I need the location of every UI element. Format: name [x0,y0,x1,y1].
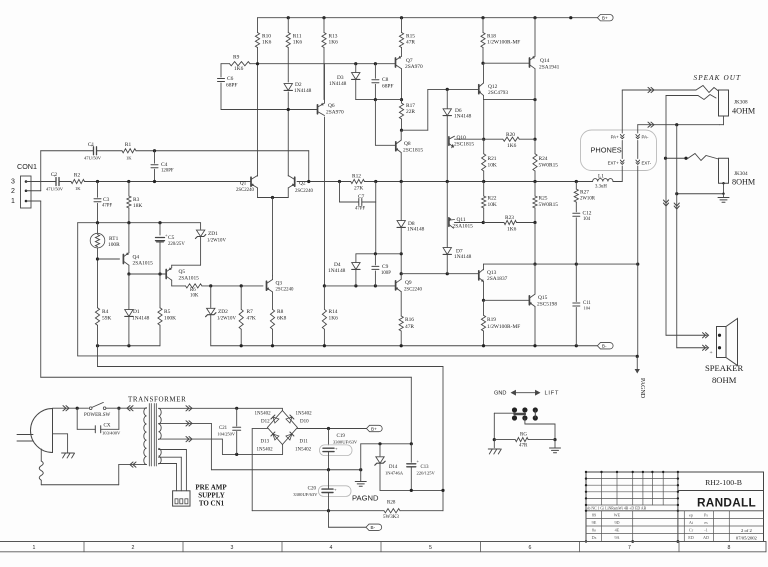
svg-text:C12: C12 [583,211,592,217]
svg-text:POWER.SW: POWER.SW [84,413,111,418]
svg-text:47K: 47K [247,316,256,322]
svg-text:R21: R21 [488,156,497,162]
svg-text:68PF: 68PF [382,84,393,90]
svg-text:EXT+: EXT+ [608,161,620,166]
svg-text:Q14: Q14 [540,58,550,64]
svg-text:B+: B+ [371,426,377,431]
svg-text:2SC2240: 2SC2240 [404,288,422,293]
svg-text:2SC5198: 2SC5198 [537,302,557,308]
svg-text:1K: 1K [126,156,132,161]
svg-text:10K: 10K [488,163,497,169]
svg-text:+: + [334,487,337,492]
svg-text:1N4148: 1N4148 [328,268,346,274]
svg-text:R28: R28 [387,501,396,506]
svg-text:2SA1837: 2SA1837 [487,276,508,282]
svg-text:3: 3 [231,545,234,551]
svg-text:2SA970: 2SA970 [405,64,423,70]
svg-text:104: 104 [584,306,591,311]
svg-text:8: 8 [728,545,731,551]
svg-text:1K: 1K [75,186,81,191]
svg-text:C8: C8 [382,77,389,83]
svg-text:3.3uH: 3.3uH [595,185,607,190]
svg-text:Q11: Q11 [457,217,466,223]
svg-text:AD: AD [703,535,709,540]
svg-text:R6: R6 [190,288,196,293]
svg-text:9A: 9A [614,535,619,540]
svg-text:4: 4 [330,545,333,551]
svg-text:+: + [335,446,338,451]
svg-text:Q9: Q9 [405,280,412,286]
svg-text:1/2W100R-MF: 1/2W100R-MF [487,40,520,46]
svg-text:89: 89 [592,512,596,517]
svg-text:1: 1 [11,198,15,205]
svg-text:JK304: JK304 [734,171,748,177]
svg-text:R23: R23 [505,215,514,221]
svg-text:2: 2 [11,188,15,195]
svg-text:18K: 18K [133,203,142,209]
svg-text:120PF: 120PF [161,169,174,174]
svg-text:47R: 47R [405,324,414,330]
svg-text:C21: C21 [219,426,228,431]
svg-text:220/125V: 220/125V [417,471,436,476]
svg-text:C4: C4 [161,162,168,168]
svg-text:C7: C7 [358,194,365,200]
svg-text:47R: 47R [519,444,528,449]
svg-text:47PF: 47PF [355,207,365,212]
svg-text:EXT-: EXT- [642,161,652,166]
svg-text:R1: R1 [125,142,132,148]
svg-text:ep: ep [689,512,693,517]
svg-text:2W10R: 2W10R [580,197,596,202]
svg-text:PHONES: PHONES [591,146,622,155]
svg-text:104/250V: 104/250V [217,431,235,436]
svg-text:1K6: 1K6 [234,66,244,72]
svg-text:8OHM: 8OHM [712,375,737,385]
svg-text:2 of 2: 2 of 2 [741,528,752,533]
svg-text:1N5402: 1N5402 [295,448,312,453]
svg-text:Q6: Q6 [328,103,335,109]
svg-text:1/2W100R-MF: 1/2W100R-MF [487,324,520,330]
svg-text:R7: R7 [247,309,254,315]
svg-text:R20: R20 [506,132,515,138]
svg-text:47U/50V: 47U/50V [84,156,102,161]
svg-text:1: 1 [33,545,36,551]
svg-text:7: 7 [628,545,631,551]
svg-text:C1: C1 [88,142,95,148]
svg-text:1/2W10V: 1/2W10V [207,239,226,244]
svg-text:D11: D11 [300,440,309,445]
svg-text:1N4148: 1N4148 [454,254,472,260]
svg-text:9D: 9D [614,520,619,525]
svg-text:5W0R15: 5W0R15 [539,202,559,208]
svg-text:1N4148: 1N4148 [454,114,472,120]
svg-text:2SC2240: 2SC2240 [276,288,294,293]
svg-text:1N4746A: 1N4746A [385,471,404,476]
svg-text:103/400V: 103/400V [102,431,121,436]
svg-text:R25: R25 [539,196,548,202]
svg-text:3300UF/63V: 3300UF/63V [333,439,358,444]
svg-text:D12: D12 [261,420,270,425]
svg-text:sb NC 1 Gi LiNRamWi 4B +D ED A: sb NC 1 Gi LiNRamWi 4B +D ED AB [587,506,647,510]
svg-text:L1: L1 [598,174,604,180]
svg-text:2SC1815: 2SC1815 [403,148,423,154]
svg-text:R12: R12 [352,174,361,180]
svg-text:C3: C3 [103,197,110,203]
svg-text:SUPPLY: SUPPLY [198,492,225,500]
svg-text:C2: C2 [51,172,58,178]
svg-text:R14: R14 [329,309,338,315]
svg-text:2: 2 [132,545,135,551]
svg-text:R24: R24 [539,156,548,162]
svg-text:2SC2240: 2SC2240 [295,189,313,194]
svg-text:2SC1815: 2SC1815 [454,142,474,148]
svg-text:47PF: 47PF [102,204,112,209]
svg-text:ZD2: ZD2 [218,309,228,315]
svg-text:59K: 59K [102,316,111,322]
svg-text:8o: 8o [592,528,596,533]
svg-text:100R: 100R [108,242,120,248]
svg-text:R27: R27 [580,190,589,196]
svg-text:1N5402: 1N5402 [257,448,274,453]
svg-text:1K6: 1K6 [507,143,517,149]
svg-text:JK308: JK308 [734,100,748,106]
svg-text:6K8: 6K8 [277,316,287,322]
svg-text:07/05/2002: 07/05/2002 [736,536,758,541]
svg-text:+: + [417,459,420,464]
svg-text:RG: RG [520,433,527,438]
svg-text:CON1: CON1 [17,162,37,171]
svg-text:3300UF/63V: 3300UF/63V [293,492,318,497]
svg-text:R9: R9 [233,55,240,61]
svg-text:B-: B- [371,525,376,530]
svg-text:4OHM: 4OHM [732,107,756,116]
svg-text:1N4148: 1N4148 [407,227,425,233]
svg-text:LIFT: LIFT [545,391,560,397]
svg-text:5: 5 [429,545,432,551]
svg-text:D14: D14 [389,465,398,470]
svg-text:1/2W10V: 1/2W10V [217,317,236,322]
svg-text:Ds: Ds [592,535,597,540]
svg-text:2SA1015: 2SA1015 [179,276,200,282]
svg-text:SPEAK OUT: SPEAK OUT [694,74,742,82]
svg-text:1N5402: 1N5402 [296,412,313,417]
svg-text:Q3: Q3 [276,281,283,287]
svg-text:D13: D13 [261,440,270,445]
svg-text:D1: D1 [133,309,140,315]
svg-text:3: 3 [11,179,15,186]
svg-text:104: 104 [583,217,591,222]
svg-text:C5: C5 [168,235,175,241]
svg-text:PAGND: PAGND [639,378,645,399]
svg-text:5W0R15: 5W0R15 [539,163,559,169]
svg-text:WE: WE [614,512,621,517]
svg-text:Ai: Ai [689,520,694,525]
svg-text:1K6: 1K6 [329,40,339,46]
svg-text:47U/50V: 47U/50V [46,187,64,192]
svg-text:68PF: 68PF [226,83,237,89]
svg-text:R8: R8 [277,309,284,315]
svg-text:Cr: Cr [689,528,694,533]
svg-text:2SA1015: 2SA1015 [133,261,154,267]
svg-text:1N5402: 1N5402 [255,412,272,417]
svg-text:1N4148: 1N4148 [329,81,347,87]
svg-text:R22: R22 [488,196,497,202]
svg-text:TRANSFORMER: TRANSFORMER [128,396,186,404]
svg-text:2SA970: 2SA970 [326,110,344,116]
svg-text:Q1: Q1 [240,181,247,187]
svg-text:100K: 100K [164,316,176,322]
svg-text:1K6: 1K6 [507,227,517,233]
svg-text:B-: B- [602,344,607,349]
svg-text:D10: D10 [300,420,309,425]
svg-text:220/25V: 220/25V [168,242,185,247]
svg-text:PA+: PA+ [611,135,620,140]
svg-text:47R: 47R [406,40,415,46]
svg-text:2SA1015: 2SA1015 [453,224,474,230]
svg-text:1N4148: 1N4148 [294,88,312,94]
svg-text:PRE AMP: PRE AMP [195,484,227,492]
svg-text:4E: 4E [615,528,620,533]
svg-text:10K: 10K [190,294,199,299]
svg-text:C9: C9 [382,264,389,270]
svg-text:RH2-100-B: RH2-100-B [705,478,742,487]
svg-text:C6: C6 [227,76,234,82]
svg-text:10K: 10K [488,202,497,208]
svg-text:PA-: PA- [642,135,650,140]
svg-text:R16: R16 [405,317,414,323]
svg-text:TO CN1: TO CN1 [199,500,225,508]
svg-text:22R: 22R [406,109,415,115]
svg-text:1K6: 1K6 [329,316,339,322]
svg-text:RANDALL: RANDALL [697,496,756,510]
svg-text:CX: CX [104,424,111,429]
svg-text:+: + [710,350,713,356]
svg-text:C20: C20 [308,487,317,492]
svg-text:8OHM: 8OHM [732,178,756,187]
svg-text:R19: R19 [487,317,496,323]
svg-text:B+: B+ [602,16,608,21]
svg-text:1K6: 1K6 [293,40,303,46]
svg-text:PAGND: PAGND [352,494,379,503]
svg-text:Q10: Q10 [457,135,467,141]
svg-text:ED: ED [688,535,694,540]
svg-text:2SC4793: 2SC4793 [488,90,508,96]
svg-text:Q8: Q8 [404,141,411,147]
svg-text:27K: 27K [354,186,363,192]
svg-text:R4: R4 [102,309,109,315]
svg-text:ZD1: ZD1 [208,231,218,237]
svg-text:-1: -1 [704,528,708,533]
svg-text:2SC2240: 2SC2240 [236,188,254,193]
svg-text:Q15: Q15 [538,295,548,301]
svg-text:9E: 9E [592,520,597,525]
svg-text:1K6: 1K6 [262,40,272,46]
svg-text:R2: R2 [74,173,81,179]
svg-text:GND: GND [494,391,506,397]
svg-text:C13: C13 [421,465,430,470]
svg-text:1N4148: 1N4148 [132,316,150,322]
svg-text:Q5: Q5 [179,269,186,275]
svg-text:C19: C19 [337,434,346,439]
svg-text:6: 6 [529,545,532,551]
svg-text:5W3K3: 5W3K3 [383,515,399,520]
svg-text:R5: R5 [164,309,171,315]
svg-text:SPEAKER: SPEAKER [705,363,743,373]
svg-text:es: es [704,520,708,525]
svg-text:100P: 100P [381,271,391,276]
svg-text:2SA1941: 2SA1941 [539,65,560,71]
svg-text:Ps: Ps [704,512,708,517]
